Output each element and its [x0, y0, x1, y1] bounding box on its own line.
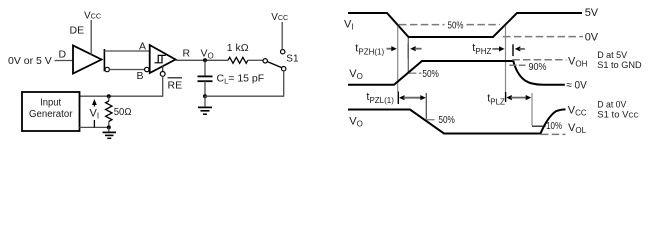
tPZL arrow [399, 95, 405, 100]
tPHZ arrow left [493, 48, 501, 50]
svg-text:S1: S1 [286, 54, 299, 65]
waveform VO (D at 5V) [348, 61, 565, 85]
pin RE label (overline) [168, 77, 183, 79]
svg-text:50%: 50% [422, 68, 439, 80]
0V dashed level [503, 36, 583, 38]
reference line VI rising 50% [505, 26, 507, 93]
svg-text:10%: 10% [546, 121, 562, 132]
receiver B input bubble [145, 67, 149, 71]
tPHZ arrow right [515, 46, 521, 51]
receiver hysteresis symbol [155, 55, 166, 62]
receiver U2 triangle [150, 45, 176, 73]
svg-text:RE: RE [168, 80, 183, 92]
tPLZ arrow [506, 95, 512, 100]
wire R output [176, 59, 229, 61]
reference line VI falling 50% [397, 26, 399, 92]
reference line VO fall 50% [425, 93, 427, 119]
svg-text:A: A [139, 41, 146, 53]
wire capacitor to rail [204, 81, 206, 96]
wire RE enable [79, 76, 162, 96]
wire B [109, 69, 144, 71]
receiver enable bubble [162, 66, 164, 71]
svg-text:≈ 0V: ≈ 0V [566, 79, 587, 91]
50% tick (VO mid) [408, 72, 416, 74]
driver inverting output bubble [105, 67, 109, 71]
svg-text:90%: 90% [529, 61, 547, 73]
svg-text:Generator: Generator [29, 109, 73, 120]
svg-text:0V or 5 V: 0V or 5 V [8, 55, 52, 67]
wire D input [55, 60, 74, 62]
svg-text:0V: 0V [585, 31, 599, 43]
svg-text:R: R [183, 47, 191, 59]
junction top rail [107, 94, 111, 98]
waveform VI [348, 13, 582, 37]
reference line VO rise 10% [531, 93, 533, 126]
source VI arrow [93, 101, 95, 127]
50% tick (VO bottom) [426, 119, 434, 121]
junction VO node [203, 58, 207, 62]
switch S1 [263, 59, 267, 63]
junction rail node [203, 94, 207, 98]
svg-text:50%: 50% [448, 20, 464, 32]
junction bottom rail [107, 125, 111, 129]
svg-text:VCC: VCC [84, 11, 101, 22]
svg-text:CL= 15 pF: CL= 15 pF [217, 73, 265, 86]
VOH dashed level [512, 59, 566, 61]
waveform VO (D at 0V) [348, 109, 566, 133]
svg-text:B: B [137, 70, 144, 82]
resistor R2 50 Ohm [108, 96, 110, 101]
wire to capacitor [204, 60, 206, 75]
resistor R1 1 kOhm [228, 57, 248, 63]
driver output bar [103, 49, 105, 71]
svg-text:50%: 50% [438, 114, 455, 126]
svg-text:DE: DE [70, 25, 85, 37]
10% tick [532, 125, 545, 127]
wire A [104, 50, 149, 52]
90% dashes [509, 64, 525, 66]
driver U1 triangle [73, 46, 102, 74]
ground (capacitor) [204, 96, 206, 106]
tPHZ tick [512, 44, 514, 56]
svg-text:1 kΩ: 1 kΩ [227, 42, 249, 54]
input generator box [22, 92, 80, 131]
50% dashed level (VI) [399, 24, 445, 26]
reference line VO rise 50% [407, 38, 409, 73]
wire generator bottom rail [79, 126, 108, 128]
tPZH arrow left [387, 48, 393, 50]
capacitor CL plates [198, 75, 213, 77]
tPZH arrow right [407, 44, 409, 59]
wire Vcc to switch [281, 22, 283, 50]
tPLZ tick [505, 92, 507, 102]
wire switch to ground rail [205, 71, 284, 96]
svg-text:5V: 5V [585, 7, 599, 19]
wire DE to Vcc [90, 20, 92, 55]
ground (generator) [108, 127, 110, 131]
svg-text:VCC: VCC [271, 12, 288, 23]
svg-text:D: D [59, 49, 67, 61]
tPZL tick [397, 92, 399, 105]
svg-text:S1 to GND: S1 to GND [597, 60, 642, 71]
svg-text:50Ω: 50Ω [114, 106, 132, 118]
svg-text:Input: Input [40, 98, 61, 109]
VOL dashed level [541, 133, 566, 135]
